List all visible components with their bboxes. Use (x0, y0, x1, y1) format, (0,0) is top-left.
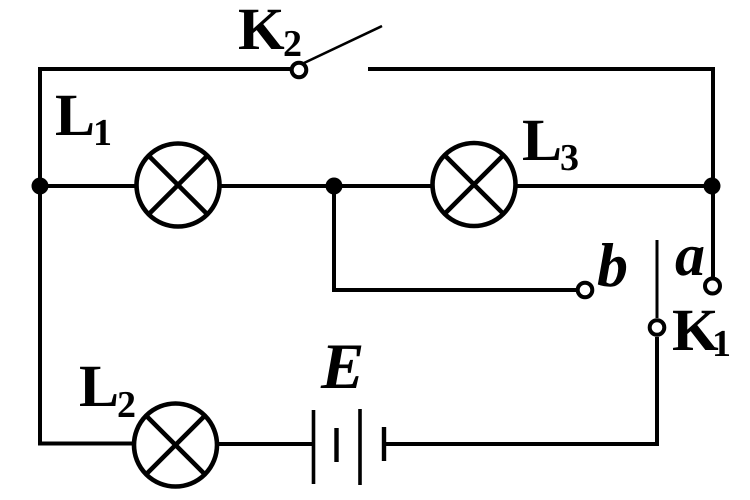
wire: K1 branch down to bottom wire (655, 337, 659, 446)
lamp L1 (137, 144, 220, 227)
label E (battery) (321, 345, 362, 388)
wire: middle junction drop to b branch (332, 186, 336, 290)
wire: middle segment between L1 and L3 (220, 184, 431, 188)
terminal b circle (578, 283, 593, 298)
wire: bottom left segment (38, 442, 133, 446)
label L1 (56, 96, 110, 145)
wire: middle left segment (38, 184, 136, 188)
wire: bottom segment between battery and K1 branch (386, 442, 659, 446)
node: right junction (704, 178, 721, 195)
label K2 (239, 10, 300, 56)
label a (terminal) (676, 247, 704, 276)
wire: left vertical segment (38, 67, 42, 445)
switch K1 pivot circle (650, 320, 665, 335)
wire: right vertical segment upper (711, 67, 715, 186)
label K1 (673, 311, 729, 356)
wire: horizontal segment to terminal b (332, 288, 577, 292)
switch K2 contact circle (292, 63, 307, 78)
wire: top-right horizontal segment (368, 67, 715, 71)
battery E plate 3 (long) (358, 409, 362, 485)
switch K2 lever (304, 26, 382, 63)
lamp L2 (134, 404, 217, 487)
node: middle junction (326, 178, 343, 195)
wire: bottom segment between L2 and battery (217, 442, 312, 446)
battery E plate 2 (short) (334, 428, 338, 462)
label L2 (80, 367, 134, 417)
wire: top-left horizontal segment (40, 67, 291, 71)
battery E plate 4 (short) (382, 427, 386, 461)
label L3 (523, 121, 578, 171)
wire: middle segment between L3 and right side (515, 184, 713, 188)
node: left junction (32, 178, 49, 195)
battery E plate 1 (long) (312, 410, 316, 484)
terminal a circle (705, 279, 720, 294)
lamp L3 (433, 143, 516, 226)
wire: right vertical segment to terminal a (711, 186, 715, 277)
switch K1 lever (656, 240, 659, 318)
label b (terminal) (598, 243, 626, 287)
